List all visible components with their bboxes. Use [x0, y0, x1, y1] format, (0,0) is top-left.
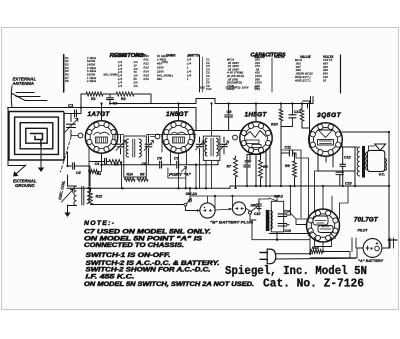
T2 secondary winding [217, 138, 219, 156]
svg-text:R2: R2 [121, 97, 126, 101]
wire V3 top [255, 104, 257, 122]
svg-text:1/4: 1/4 [187, 62, 192, 66]
wire V2 top [178, 104, 180, 121]
resistor table left rule [63, 55, 65, 93]
V1 grid cap pin [78, 133, 83, 138]
wire IF2 feed vertical [200, 104, 212, 189]
osc coil core [82, 187, 84, 206]
svg-text:C11: C11 [285, 146, 291, 150]
svg-text:V.C.: V.C. [379, 173, 386, 177]
svg-text:1/4: 1/4 [187, 73, 192, 77]
wire bus y241.5 [277, 213, 290, 240]
svg-text:1/4: 1/4 [187, 54, 192, 58]
svg-text:VOLTS: VOLTS [323, 58, 332, 62]
svg-text:CONNECTED TO CHASSIS.: CONNECTED TO CHASSIS. [84, 242, 184, 249]
svg-text:C3: C3 [113, 102, 118, 106]
svg-text:1/4: 1/4 [118, 60, 123, 64]
svg-text:25: 25 [322, 78, 327, 82]
svg-text:1/4: 1/4 [118, 63, 123, 67]
V2 grid cap wire [151, 136, 156, 138]
capacitor C15 [257, 199, 262, 211]
svg-text:.007: .007 [295, 65, 301, 69]
svg-text:10: 10 [134, 63, 138, 67]
T2 trimmer cap left [199, 137, 201, 154]
svg-text:NOTE:-: NOTE:- [84, 220, 115, 227]
svg-text:VOLTS: VOLTS [274, 55, 285, 59]
svg-text:ANTENNA: ANTENNA [12, 81, 34, 86]
wire V1 plate to bus [101, 104, 103, 121]
svg-text:R3: R3 [97, 172, 101, 176]
svg-text:R4: R4 [114, 162, 118, 166]
resistor R16 [302, 105, 310, 129]
svg-text:90(ELECT.): 90(ELECT.) [295, 75, 311, 79]
B battery plug circle 1 [200, 203, 215, 218]
svg-text:1/4: 1/4 [118, 74, 123, 78]
svg-text:.006: .006 [295, 68, 301, 72]
wire lower bus y164.7 [102, 153, 219, 165]
T2 trimmer cap right [223, 137, 225, 154]
speaker cone triangle [375, 144, 386, 150]
IF transformer T2 shield box [203, 136, 220, 160]
svg-text:R8: R8 [263, 165, 268, 169]
svg-text:R1: R1 [91, 97, 96, 101]
T1 trimmer cap left [120, 137, 122, 154]
resistor R1 [86, 92, 103, 96]
svg-text:400: 400 [323, 68, 328, 72]
svg-text:I.F. 455 K.C.: I.F. 455 K.C. [86, 273, 135, 280]
wire grid row y134.5 [115, 135, 196, 141]
svg-text:R5: R5 [140, 173, 144, 177]
tube V3 1H5GT [240, 122, 272, 154]
wires below V5 [296, 219, 332, 252]
wire long bus y107.5 [81, 108, 196, 131]
wire tube3 bottom down [247, 149, 266, 186]
osc coil secondary [87, 188, 89, 204]
T2 core [211, 138, 213, 156]
svg-text:C13: C13 [345, 182, 352, 186]
svg-text:SWITCH-1 IS ON-OFF.: SWITCH-1 IS ON-OFF. [86, 252, 171, 259]
loop center tap wire + arrow to ground [40, 140, 42, 160]
power transformer winding [271, 211, 273, 230]
external ground arrow [16, 165, 26, 174]
resistor R2 [116, 92, 134, 96]
dashed gang line [61, 137, 72, 172]
wire stub [307, 104, 309, 109]
svg-text:R4: R4 [65, 66, 69, 70]
tube V2 1N5GT [162, 121, 194, 153]
svg-text:C15: C15 [254, 212, 260, 216]
osc coil left wire [68, 175, 77, 211]
AC line plug prongs [260, 253, 268, 260]
svg-text:“B” BATTERY PLUG: “B” BATTERY PLUG [210, 221, 253, 225]
wire plate to output transformer [342, 141, 357, 186]
wire top bus [81, 94, 313, 104]
point A callout box [168, 168, 186, 188]
svg-text:.002: .002 [295, 61, 301, 65]
svg-text:1500: 1500 [157, 66, 164, 70]
svg-text:51000: 51000 [87, 59, 96, 63]
capacitor table right rule [340, 55, 342, 93]
svg-text:R14: R14 [127, 173, 133, 177]
V2 grid cap pin [155, 134, 160, 139]
AC plug body [267, 249, 276, 264]
svg-text:R8: R8 [65, 79, 69, 83]
V3 grid cap pin [233, 135, 238, 140]
speaker frame [367, 150, 384, 171]
svg-text:C1: C1 [68, 103, 74, 108]
svg-text:MIL.OHMS: MIL.OHMS [104, 73, 119, 77]
tube V4 3Q5GT [309, 123, 343, 157]
svg-text:1/4: 1/4 [118, 70, 123, 74]
T2 primary winding [205, 138, 207, 156]
wires above V5 ladder [301, 150, 340, 219]
svg-text:51 MEG: 51 MEG [157, 54, 168, 58]
T1 trimmer cap right [148, 137, 150, 154]
svg-text:.05(5N MOD): .05(5N MOD) [295, 72, 313, 76]
T1 secondary winding [139, 139, 141, 157]
ground arrow below osc [67, 205, 69, 213]
svg-text:R10: R10 [271, 123, 278, 127]
svg-text:1N5GT: 1N5GT [166, 111, 189, 118]
power transformer frame [271, 201, 283, 232]
svg-text:C5: C5 [142, 162, 146, 166]
svg-text:SW-2A: SW-2A [186, 192, 198, 196]
capacitor C3 [110, 94, 151, 104]
svg-text:R15: R15 [144, 73, 150, 77]
AC cord [276, 254, 356, 259]
svg-text:GROUND: GROUND [15, 183, 35, 188]
wire under IF2 [205, 160, 207, 188]
svg-text:990: 990 [157, 77, 162, 81]
T1 primary winding [126, 139, 128, 157]
svg-text:BAL.(NOM.): BAL.(NOM.) [157, 73, 173, 77]
variable arrow through osc coil [62, 190, 74, 203]
svg-text:600: 600 [323, 61, 328, 65]
tube V1 1A7GT [85, 121, 117, 153]
svg-text:1/4: 1/4 [134, 74, 139, 78]
svg-text:Cat. No. Z-7126: Cat. No. Z-7126 [263, 277, 364, 291]
tuning capacitor C2 [70, 114, 72, 138]
junction dots [100, 102, 102, 104]
wire V3 right pin down [269, 146, 271, 186]
wire grid bus y130 [194, 131, 242, 138]
wire R12 to SW-2A [91, 204, 185, 206]
antenna symbol [11, 86, 47, 108]
wires under V1 [89, 146, 149, 188]
bottom buses [252, 220, 357, 258]
svg-text:C16: C16 [285, 229, 291, 233]
output transformer T3 core [362, 146, 365, 178]
svg-text:(5N): (5N) [199, 86, 205, 90]
svg-text:1/4: 1/4 [118, 67, 123, 71]
loop antenna spiral [9, 112, 64, 161]
svg-text:1/4: 1/4 [118, 84, 123, 88]
svg-text:3Q5GT: 3Q5GT [317, 112, 342, 119]
T1 core [133, 139, 135, 157]
resistor R4 [109, 160, 122, 164]
svg-text:40(ELECT.): 40(ELECT.) [295, 78, 311, 82]
svg-text:R12: R12 [144, 62, 150, 66]
svg-text:C10: C10 [206, 87, 212, 91]
svg-text:1/4: 1/4 [134, 60, 139, 64]
switch SW-2A [184, 203, 187, 206]
svg-text:PILOT: PILOT [358, 229, 369, 233]
capacitor table mid rule [271, 58, 273, 92]
svg-text:1/4: 1/4 [118, 80, 123, 84]
svg-text:R12: R12 [96, 195, 103, 199]
svg-text:R14: R14 [144, 69, 150, 73]
power transformer core [266, 210, 270, 231]
svg-text:2 MEG: 2 MEG [86, 79, 96, 83]
svg-text:1/4: 1/4 [134, 67, 139, 71]
svg-text:R13: R13 [144, 66, 150, 70]
svg-text:1/4: 1/4 [118, 77, 123, 81]
svg-text:25Z: 25Z [253, 86, 259, 90]
svg-text:R6: R6 [65, 73, 69, 77]
main horizontal bus B- [67, 186, 389, 188]
svg-text:MICA: MICA [295, 58, 302, 62]
svg-text:20(20MFD) 150V: 20(20MFD) 150V [225, 86, 249, 90]
svg-text:POINT “A”: POINT “A” [169, 172, 192, 177]
left wire down from antenna bus [8, 108, 25, 166]
svg-text:“A” BATTERY: “A” BATTERY [358, 259, 384, 263]
svg-text:OHMS: OHMS [117, 54, 127, 58]
svg-text:2 MEG: 2 MEG [86, 66, 96, 70]
svg-text:70: 70 [134, 70, 138, 74]
wires battery row [190, 196, 280, 211]
wire tube2 bottom down [162, 135, 212, 189]
svg-text:55: 55 [134, 77, 138, 81]
svg-text:1/4: 1/4 [187, 58, 192, 62]
capacitor table left rule [199, 55, 201, 92]
wires near pilot [357, 238, 394, 258]
svg-text:70L7GT: 70L7GT [354, 217, 379, 224]
B battery plug circle 2 [232, 202, 245, 215]
svg-text:1/4: 1/4 [134, 84, 139, 88]
svg-text:SW-2: SW-2 [274, 195, 283, 199]
wire V4 plate to right edge [342, 132, 389, 248]
arrows between plugs [216, 209, 232, 210]
svg-text:R9: R9 [285, 164, 290, 168]
wire V4 feeder left [303, 101, 312, 147]
svg-text:1A7GT: 1A7GT [88, 111, 111, 118]
svg-text:R10: R10 [144, 54, 150, 58]
svg-text:500: 500 [323, 72, 328, 76]
svg-text:R16: R16 [144, 77, 150, 81]
svg-text:C4: C4 [95, 162, 100, 166]
svg-text:450: 450 [323, 65, 328, 69]
svg-text:C12: C12 [344, 156, 351, 160]
resistor R3 [89, 170, 99, 174]
wire SW2 to transformer [259, 196, 277, 201]
svg-text:51000: 51000 [87, 73, 96, 77]
resistor R10 [280, 105, 282, 187]
svg-text:1/4: 1/4 [134, 80, 139, 84]
svg-text:120: 120 [323, 75, 328, 79]
svg-text:(5N): (5N) [162, 60, 168, 64]
svg-text:ON MODEL 5N SWITCH, SWITCH 2A: ON MODEL 5N SWITCH, SWITCH 2A NOT USED. [84, 281, 254, 288]
wire antenna to C1 [8, 94, 82, 114]
svg-text:R11: R11 [144, 58, 150, 62]
tube V5 70L7GT [307, 209, 340, 242]
IF transformer T1 shield box [124, 136, 147, 177]
wires under V4 [318, 154, 355, 171]
output transformer T3 primary [357, 147, 359, 176]
pilot lamp / A battery plug [363, 239, 382, 258]
svg-text:1/4: 1/4 [187, 69, 192, 73]
svg-text:2200: 2200 [156, 69, 164, 73]
svg-text:C14: C14 [284, 210, 290, 214]
svg-text:R2: R2 [65, 59, 69, 63]
osc coil T4 primary [74, 186, 77, 206]
